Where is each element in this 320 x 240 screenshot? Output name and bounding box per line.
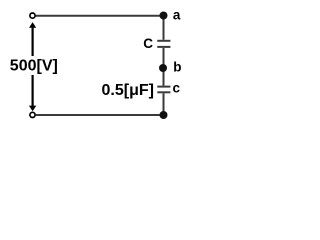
svg-text:c: c (173, 80, 181, 95)
terminal top-left (open circle) (30, 13, 35, 18)
terminal bottom-left (open circle) (30, 112, 35, 117)
svg-text:C: C (143, 36, 153, 51)
voltage arrow up (toward top terminal) (29, 22, 36, 56)
capacitor c plates (0.5uF) (157, 87, 170, 93)
node b (junction dot) (159, 64, 167, 72)
wire between capacitor c and bottom junction (163, 93, 165, 115)
svg-text:a: a (173, 7, 181, 22)
svg-text:0.5[μF]: 0.5[μF] (102, 82, 154, 99)
wire between capacitor C and node b (163, 48, 165, 68)
wire top (36, 15, 164, 17)
svg-text:b: b (173, 59, 181, 74)
svg-text:500[V]: 500[V] (10, 57, 58, 74)
wire between node b and capacitor c (163, 68, 165, 86)
wire bottom (36, 114, 164, 116)
wire right upper (node a to capacitor C) (163, 16, 165, 40)
node a (junction dot) (160, 12, 168, 20)
voltage arrow down (toward bottom terminal) (29, 75, 36, 111)
capacitor C plates (157, 41, 170, 47)
bottom-right junction dot (160, 111, 168, 119)
